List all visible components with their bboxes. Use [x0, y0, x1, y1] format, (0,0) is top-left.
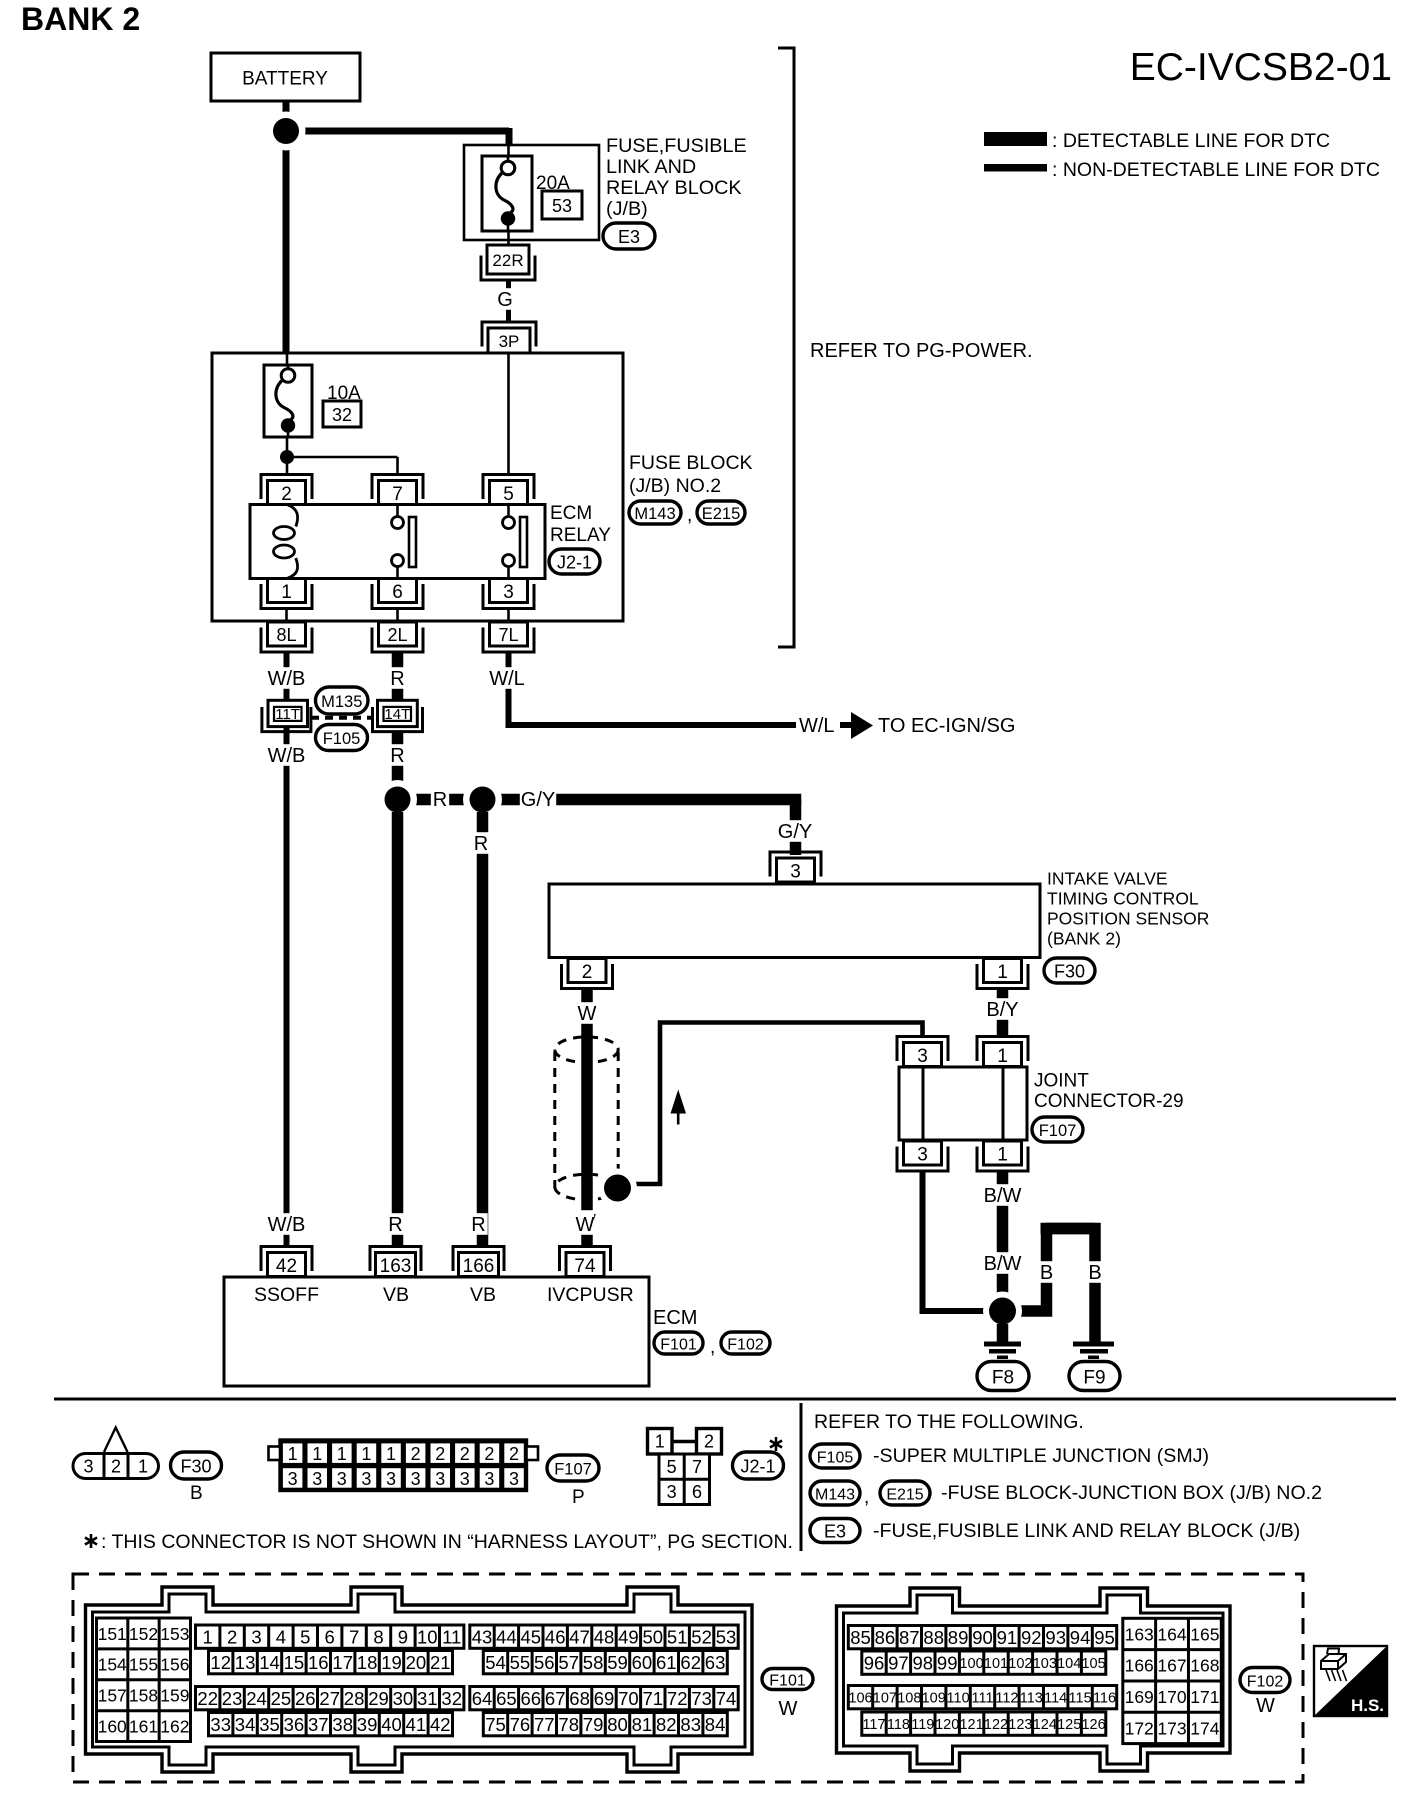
- svg-text:INTAKE VALVE: INTAKE VALVE: [1047, 869, 1168, 889]
- wire JC pin3 to ground dot: [923, 1172, 985, 1312]
- svg-text:62: 62: [680, 1652, 701, 1673]
- svg-text:163: 163: [1125, 1624, 1154, 1644]
- svg-text:75: 75: [485, 1714, 506, 1735]
- svg-text:28: 28: [344, 1688, 365, 1709]
- svg-text:171: 171: [1190, 1687, 1219, 1707]
- title BANK 2: [21, 1, 140, 37]
- ground id F8: [977, 1362, 1029, 1391]
- svg-text:7: 7: [349, 1626, 359, 1647]
- bracket REFER TO PG-POWER: [778, 48, 794, 647]
- node battery junction: [267, 112, 306, 151]
- sensor pin 1: [977, 959, 1028, 989]
- svg-text:LINK AND: LINK AND: [606, 156, 696, 178]
- svg-text:156: 156: [160, 1655, 189, 1675]
- svg-text:2: 2: [460, 1444, 470, 1464]
- svg-text:166: 166: [1125, 1656, 1154, 1676]
- svg-text:E215: E215: [886, 1486, 923, 1503]
- svg-text:1: 1: [288, 1444, 298, 1464]
- svg-text:42: 42: [276, 1256, 297, 1277]
- svg-text:H.S.: H.S.: [1351, 1696, 1384, 1715]
- svg-text:59: 59: [607, 1652, 628, 1673]
- svg-text:58: 58: [583, 1652, 604, 1673]
- wire R 14T to dot: [392, 732, 404, 800]
- svg-text:-FUSE BLOCK-JUNCTION BOX (J/B): -FUSE BLOCK-JUNCTION BOX (J/B) NO.2: [941, 1482, 1322, 1504]
- svg-text:14T: 14T: [384, 706, 410, 723]
- svg-text:1: 1: [997, 1046, 1008, 1067]
- svg-text:106: 106: [848, 1690, 872, 1706]
- shield cylinder: [555, 1037, 618, 1200]
- svg-text:65: 65: [496, 1688, 517, 1709]
- label W/B upper: [268, 667, 306, 690]
- svg-text:46: 46: [545, 1626, 566, 1647]
- svg-text:3P: 3P: [499, 332, 520, 351]
- intake valve timing control position sensor box: [549, 884, 1040, 958]
- svg-text:P: P: [572, 1487, 585, 1508]
- svg-text:TIMING CONTROL: TIMING CONTROL: [1047, 889, 1199, 909]
- svg-text:SSOFF: SSOFF: [254, 1284, 319, 1306]
- ground symbol F8: [984, 1342, 1021, 1360]
- svg-text:W: W: [1256, 1695, 1275, 1717]
- wire pin1 to block edge: [285, 609, 288, 622]
- wire G/Y dot2 to sensor pin3: [483, 800, 802, 856]
- svg-text:166: 166: [463, 1256, 495, 1277]
- node R junction dot1: [378, 780, 417, 819]
- label W/B lower: [268, 744, 306, 767]
- JC pin 3 top: [897, 1037, 948, 1067]
- svg-text:151: 151: [98, 1624, 127, 1644]
- svg-text:82: 82: [656, 1714, 677, 1735]
- horizontal separator: [54, 1398, 1396, 1401]
- svg-text:21: 21: [430, 1652, 451, 1673]
- ECM pin 74: [560, 1247, 611, 1277]
- label R above 163: [386, 1213, 404, 1236]
- svg-text:ECM: ECM: [550, 503, 592, 524]
- svg-text:165: 165: [1190, 1624, 1219, 1644]
- svg-text:112: 112: [995, 1690, 1018, 1706]
- svg-text:44: 44: [496, 1626, 517, 1647]
- connector 3P: [482, 322, 536, 353]
- svg-text:23: 23: [222, 1688, 243, 1709]
- svg-text:97: 97: [888, 1652, 909, 1673]
- label JOINT CONNECTOR-29: [1034, 1071, 1184, 1113]
- svg-text:: NON-DETECTABLE LINE FOR DTC: : NON-DETECTABLE LINE FOR DTC: [1052, 159, 1380, 181]
- svg-text:122: 122: [984, 1717, 1008, 1733]
- svg-text:E215: E215: [702, 505, 741, 523]
- label 20A: [536, 173, 570, 194]
- svg-text:ECM: ECM: [653, 1307, 697, 1329]
- svg-text:,: ,: [710, 1337, 715, 1358]
- svg-text:G/Y: G/Y: [521, 789, 555, 811]
- svg-text:64: 64: [472, 1688, 493, 1709]
- svg-text:E3: E3: [824, 1521, 846, 1541]
- svg-text:8: 8: [373, 1626, 383, 1647]
- svg-text:74: 74: [716, 1688, 737, 1709]
- svg-text:36: 36: [284, 1714, 305, 1735]
- svg-text:94: 94: [1070, 1627, 1091, 1648]
- svg-text:52: 52: [691, 1626, 712, 1647]
- svg-text:(BANK 2): (BANK 2): [1047, 929, 1121, 949]
- connector 8L: [261, 622, 312, 652]
- svg-text:7: 7: [692, 1457, 702, 1477]
- label B/Y: [984, 998, 1020, 1021]
- svg-text:F8: F8: [992, 1367, 1014, 1388]
- node shield dot: [598, 1169, 637, 1208]
- svg-text:4: 4: [276, 1626, 286, 1647]
- svg-text:5: 5: [667, 1457, 677, 1477]
- svg-text:F105: F105: [817, 1449, 854, 1466]
- connector 7L: [483, 622, 534, 652]
- svg-text:101: 101: [984, 1656, 1008, 1672]
- svg-text:56: 56: [534, 1652, 555, 1673]
- svg-text:15: 15: [284, 1652, 305, 1673]
- svg-text:53: 53: [552, 196, 572, 216]
- note asterisk: [85, 1531, 793, 1553]
- connector id F102: [721, 1332, 770, 1354]
- svg-text:F101: F101: [769, 1672, 806, 1689]
- label W upper: [578, 1002, 597, 1025]
- svg-text:J2-1: J2-1: [740, 1456, 775, 1476]
- connector id E3: [603, 223, 655, 249]
- svg-text:F30: F30: [1054, 961, 1085, 981]
- svg-text:12: 12: [210, 1652, 231, 1673]
- svg-text:2: 2: [281, 484, 292, 505]
- label B left: [1037, 1261, 1055, 1284]
- svg-text:F30: F30: [180, 1456, 211, 1476]
- label R lower: [388, 744, 406, 767]
- svg-text:-SUPER MULTIPLE JUNCTION (SMJ): -SUPER MULTIPLE JUNCTION (SMJ): [873, 1445, 1209, 1467]
- wire R dot2 to ECM 166: [477, 812, 489, 1247]
- svg-text:2: 2: [111, 1456, 121, 1476]
- svg-text:W/B: W/B: [268, 668, 306, 690]
- svg-text:3: 3: [288, 1469, 298, 1489]
- wire R 2L to 14T: [392, 653, 404, 701]
- svg-text:159: 159: [160, 1686, 189, 1706]
- svg-text:86: 86: [875, 1627, 896, 1648]
- svg-text:: DETECTABLE LINE FOR DTC: : DETECTABLE LINE FOR DTC: [1052, 130, 1330, 152]
- label G/Y vertical: [777, 820, 813, 843]
- svg-text:31: 31: [417, 1688, 438, 1709]
- ground id F9: [1069, 1362, 1120, 1391]
- connector id F107 legend: [547, 1455, 599, 1481]
- svg-text:51: 51: [667, 1626, 688, 1647]
- svg-text:162: 162: [160, 1717, 189, 1737]
- svg-text:R: R: [433, 789, 447, 811]
- svg-text:2: 2: [704, 1431, 714, 1451]
- svg-text:22R: 22R: [492, 251, 523, 270]
- ground symbol F9: [1073, 1342, 1114, 1360]
- svg-text:3: 3: [411, 1469, 421, 1489]
- ECM relay box: [250, 505, 545, 579]
- svg-text:57: 57: [558, 1652, 579, 1673]
- svg-text:168: 168: [1190, 1656, 1219, 1676]
- svg-text:F102: F102: [727, 1336, 764, 1353]
- svg-text:G: G: [497, 289, 513, 311]
- sensor pin 3: [770, 852, 821, 882]
- svg-text:99: 99: [937, 1652, 958, 1673]
- connector id F105: [316, 725, 368, 751]
- svg-text:40: 40: [381, 1714, 402, 1735]
- svg-text:92: 92: [1021, 1627, 1042, 1648]
- svg-text:RELAY BLOCK: RELAY BLOCK: [606, 177, 742, 199]
- svg-text:60: 60: [632, 1652, 653, 1673]
- svg-text:164: 164: [1157, 1624, 1186, 1644]
- wire into fuse 20A: [507, 145, 510, 158]
- svg-text:66: 66: [521, 1688, 542, 1709]
- svg-text:B: B: [1040, 1262, 1053, 1284]
- svg-text:42: 42: [430, 1714, 451, 1735]
- asterisk J2-1: [770, 1437, 782, 1451]
- label R upper: [388, 667, 406, 690]
- label W above 74: [576, 1213, 595, 1236]
- svg-text:3: 3: [484, 1469, 494, 1489]
- svg-text:2: 2: [484, 1444, 494, 1464]
- svg-text:EC-IVCSB2-01: EC-IVCSB2-01: [1130, 46, 1392, 89]
- ref M143 E215: [810, 1481, 1322, 1508]
- ECM pin 42: [261, 1247, 312, 1277]
- value box 32: [323, 401, 361, 427]
- svg-text:3: 3: [435, 1469, 445, 1489]
- label VB 166: [470, 1284, 496, 1306]
- label B/W upper: [984, 1184, 1022, 1207]
- label G/Y after dot2: [520, 788, 556, 811]
- svg-text:161: 161: [129, 1717, 158, 1737]
- relay contact 7-6: [392, 505, 417, 579]
- svg-text:3: 3: [917, 1144, 928, 1165]
- battery B1: [211, 53, 360, 101]
- svg-text:32: 32: [332, 405, 352, 425]
- fuse 20A: [482, 156, 532, 231]
- label B/W lower: [984, 1252, 1022, 1275]
- svg-text:154: 154: [98, 1655, 127, 1675]
- svg-text:88: 88: [923, 1627, 944, 1648]
- label W/L upper: [489, 667, 525, 690]
- svg-text:5: 5: [300, 1626, 310, 1647]
- wire dot to ground F8: [997, 1324, 1009, 1342]
- wire B loop: [1016, 1229, 1095, 1342]
- svg-text:B/Y: B/Y: [986, 999, 1018, 1021]
- svg-text:3: 3: [790, 861, 801, 882]
- svg-text:F102: F102: [1247, 1673, 1284, 1690]
- wire W/L: [509, 653, 797, 726]
- svg-text:74: 74: [574, 1256, 596, 1277]
- svg-text:REFER TO PG-POWER.: REFER TO PG-POWER.: [810, 340, 1033, 362]
- svg-text:3: 3: [337, 1469, 347, 1489]
- svg-text:153: 153: [160, 1624, 189, 1644]
- svg-text:M143: M143: [634, 505, 675, 523]
- svg-text:CONNECTOR-29: CONNECTOR-29: [1034, 1091, 1184, 1112]
- label INTAKE VALVE TIMING CONTROL POSITION SENSOR (BANK 2): [1047, 869, 1209, 949]
- svg-text:55: 55: [510, 1652, 531, 1673]
- svg-text:1: 1: [361, 1444, 371, 1464]
- connector 11T: [262, 700, 311, 731]
- dashed harness box: [73, 1574, 1303, 1782]
- label B right: [1086, 1261, 1104, 1284]
- ECM box: [224, 1277, 649, 1386]
- label W lower: [577, 1210, 596, 1233]
- svg-text:R: R: [471, 1214, 485, 1236]
- svg-text:68: 68: [569, 1688, 590, 1709]
- svg-text:79: 79: [583, 1714, 604, 1735]
- svg-text:108: 108: [897, 1690, 921, 1706]
- svg-text:67: 67: [545, 1688, 566, 1709]
- svg-text:45: 45: [521, 1626, 542, 1647]
- svg-text:174: 174: [1190, 1718, 1219, 1738]
- svg-text:: THIS CONNECTOR IS NOT SHOWN: : THIS CONNECTOR IS NOT SHOWN IN “HARNES…: [101, 1531, 793, 1553]
- node fuse junction: [280, 450, 294, 464]
- connector id F107: [1032, 1117, 1083, 1142]
- connector id F30 legend: [171, 1452, 222, 1479]
- JC pin 1 top: [977, 1037, 1028, 1067]
- relay pin 6: [372, 579, 423, 609]
- svg-text:25: 25: [271, 1688, 292, 1709]
- svg-text:77: 77: [534, 1714, 555, 1735]
- svg-text:3: 3: [503, 582, 514, 603]
- comma F101 F102: [710, 1337, 715, 1358]
- svg-text:TO EC-IGN/SG: TO EC-IGN/SG: [878, 715, 1015, 737]
- svg-text:R: R: [390, 745, 404, 767]
- comma between M143 E215: [687, 505, 692, 526]
- wire 10A fuse to pin2: [286, 437, 289, 475]
- relay pin 1: [261, 579, 312, 609]
- wire pin6 to block edge: [396, 609, 399, 622]
- ECM pin 166: [453, 1247, 504, 1277]
- svg-text:29: 29: [368, 1688, 389, 1709]
- svg-text:VB: VB: [470, 1284, 496, 1306]
- svg-text:72: 72: [667, 1688, 688, 1709]
- svg-text:3: 3: [667, 1482, 677, 1502]
- svg-text:2L: 2L: [387, 625, 407, 645]
- svg-text:9: 9: [398, 1626, 408, 1647]
- svg-text:80: 80: [607, 1714, 628, 1735]
- svg-text:M135: M135: [321, 693, 362, 711]
- joint connector body: [899, 1067, 1027, 1140]
- connector F107 face: [269, 1440, 539, 1491]
- svg-text:B/W: B/W: [984, 1185, 1022, 1207]
- svg-text:JOINT: JOINT: [1034, 1071, 1089, 1092]
- JC pin 3 bottom: [897, 1141, 948, 1171]
- value box 53: [542, 191, 582, 219]
- svg-text:22: 22: [197, 1688, 218, 1709]
- svg-text:81: 81: [632, 1714, 653, 1735]
- JC pin 1 bottom: [977, 1141, 1028, 1171]
- svg-text:W/L: W/L: [489, 668, 525, 690]
- svg-text:3: 3: [251, 1626, 261, 1647]
- wire G 22R to 3P: [506, 279, 511, 322]
- H.S. logo: [1314, 1646, 1387, 1716]
- svg-text:1: 1: [203, 1626, 213, 1647]
- ECM pin 163: [370, 1247, 421, 1277]
- vertical separator: [800, 1403, 803, 1551]
- svg-text:107: 107: [873, 1690, 897, 1706]
- svg-text:2: 2: [227, 1626, 237, 1647]
- svg-text:2: 2: [509, 1444, 519, 1464]
- svg-text:54: 54: [485, 1652, 506, 1673]
- svg-text:J2-1: J2-1: [557, 552, 592, 572]
- svg-text:87: 87: [899, 1627, 920, 1648]
- svg-text:61: 61: [656, 1652, 677, 1673]
- svg-text:1: 1: [281, 582, 292, 603]
- label ECM RELAY: [550, 503, 611, 546]
- SMJ dashed line: [311, 716, 372, 720]
- legend non-detectable text: [1052, 159, 1380, 181]
- svg-text:13: 13: [235, 1652, 256, 1673]
- label REFER TO THE FOLLOWING: [814, 1411, 1084, 1433]
- svg-text:3: 3: [83, 1456, 93, 1476]
- label FUSE,FUSIBLE LINK AND RELAY BLOCK (J/B): [606, 135, 747, 220]
- svg-text:3: 3: [361, 1469, 371, 1489]
- svg-text:155: 155: [129, 1655, 158, 1675]
- wire B/W JC to ground dot: [997, 1172, 1009, 1312]
- svg-text:113: 113: [1020, 1690, 1043, 1706]
- wire W sensor to ECM 74: [581, 989, 593, 1247]
- connector 2L: [372, 622, 423, 652]
- svg-text:33: 33: [210, 1714, 231, 1735]
- svg-text:158: 158: [129, 1686, 158, 1706]
- svg-text:124: 124: [1033, 1717, 1057, 1733]
- wire junction to E3 block: [286, 128, 509, 145]
- svg-text:20: 20: [406, 1652, 427, 1673]
- svg-text:125: 125: [1057, 1717, 1081, 1733]
- svg-text:F101: F101: [660, 1336, 697, 1353]
- relay pin 5: [483, 475, 534, 505]
- fuse-block E3 box: [464, 145, 599, 240]
- wire junction to pin7: [287, 457, 398, 475]
- svg-text:2: 2: [411, 1444, 421, 1464]
- svg-text:50: 50: [643, 1626, 664, 1647]
- svg-text:118: 118: [887, 1717, 910, 1733]
- svg-text:34: 34: [235, 1714, 256, 1735]
- svg-text:1: 1: [312, 1444, 322, 1464]
- svg-text:3: 3: [312, 1469, 322, 1489]
- svg-text:26: 26: [295, 1688, 316, 1709]
- legend detectable text: [1052, 130, 1330, 152]
- relay contact 5-3: [503, 505, 528, 579]
- svg-text:RELAY: RELAY: [550, 525, 611, 546]
- svg-text:95: 95: [1094, 1627, 1115, 1648]
- svg-text:39: 39: [357, 1714, 378, 1735]
- svg-text:173: 173: [1157, 1718, 1186, 1738]
- svg-text:W/B: W/B: [268, 745, 306, 767]
- svg-text:W/B: W/B: [268, 1214, 306, 1236]
- connector id M135: [316, 687, 369, 714]
- svg-text:78: 78: [558, 1714, 579, 1735]
- svg-text:73: 73: [691, 1688, 712, 1709]
- svg-text:49: 49: [618, 1626, 639, 1647]
- connector id J2-1 legend: [733, 1452, 784, 1479]
- connector id F101: [654, 1332, 703, 1354]
- svg-text:F9: F9: [1083, 1367, 1105, 1388]
- svg-text:18: 18: [357, 1652, 378, 1673]
- svg-text:10: 10: [417, 1626, 438, 1647]
- connector id F101 legend: [762, 1669, 813, 1721]
- svg-text:126: 126: [1081, 1717, 1105, 1733]
- arrow up on drain: [671, 1090, 687, 1125]
- svg-text:160: 160: [98, 1717, 127, 1737]
- connector id M143: [629, 501, 681, 524]
- label P under F107: [572, 1487, 585, 1508]
- svg-text:24: 24: [246, 1688, 267, 1709]
- svg-text:152: 152: [129, 1624, 158, 1644]
- wire battery to junction: [283, 101, 290, 353]
- ECM connector F102 pinout: [837, 1588, 1231, 1771]
- svg-text:R: R: [388, 1214, 402, 1236]
- svg-text:M143: M143: [815, 1486, 855, 1503]
- svg-text:1: 1: [997, 1144, 1008, 1165]
- connector F30 face: [73, 1428, 159, 1479]
- svg-text:85: 85: [850, 1627, 871, 1648]
- svg-text:48: 48: [594, 1626, 615, 1647]
- svg-text:27: 27: [319, 1688, 340, 1709]
